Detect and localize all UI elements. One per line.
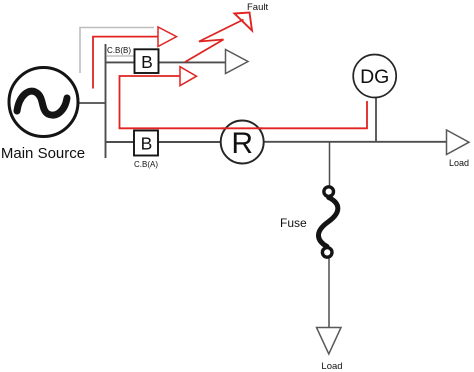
thin wire above breaker B <box>106 55 135 57</box>
red arrow head A <box>158 27 177 47</box>
wire bus to C.B(A) <box>106 141 134 143</box>
svg-text:Fault: Fault <box>247 2 268 13</box>
fuse F1 top contact <box>324 187 334 197</box>
recloser R circle <box>221 121 264 164</box>
svg-text:DG: DG <box>360 66 389 88</box>
fault bolt arrowhead <box>235 13 253 31</box>
wire fuse to load <box>328 258 330 328</box>
load arrow bottom <box>317 328 342 355</box>
red fault path A (upper feeder) <box>93 37 158 89</box>
branch wire to DG <box>375 98 377 142</box>
svg-text:Load: Load <box>449 158 469 168</box>
ghost path (grey trace) <box>80 28 154 74</box>
breaker C.B(A) box <box>134 131 158 156</box>
breaker C.B(B) box <box>135 49 159 73</box>
red arrow head B <box>180 67 197 86</box>
wire C.B(A) to recloser R <box>158 141 222 143</box>
wire C.B(B) to feeder arrow <box>159 61 227 63</box>
fuse F1 bottom contact <box>322 248 332 258</box>
bus vertical <box>105 44 107 158</box>
sine symbol <box>17 91 67 115</box>
red fault path B (from DG) <box>120 76 368 128</box>
wire bus to C.B(B) <box>106 61 135 63</box>
wire source to bus <box>77 102 106 104</box>
feeder arrow top (grey) <box>226 50 249 74</box>
svg-text:B: B <box>141 52 153 72</box>
AC source Main Source <box>9 68 78 137</box>
svg-text:C.B(A): C.B(A) <box>134 160 158 169</box>
fuse S-curve <box>318 198 337 247</box>
main feeder wire after recloser <box>263 141 447 143</box>
branch wire to fuse <box>329 142 331 186</box>
svg-text:Fuse: Fuse <box>280 216 307 230</box>
svg-text:Load: Load <box>321 361 342 372</box>
svg-text:Main Source: Main Source <box>1 145 85 162</box>
svg-text:B: B <box>141 134 153 154</box>
fault bolt <box>185 20 244 63</box>
red line over recloser (continuation of path B) <box>221 127 263 129</box>
svg-text:R: R <box>231 127 253 160</box>
svg-text:C.B(B): C.B(B) <box>107 46 131 55</box>
generator DG circle <box>353 55 396 98</box>
feeder load arrow right <box>447 130 470 155</box>
